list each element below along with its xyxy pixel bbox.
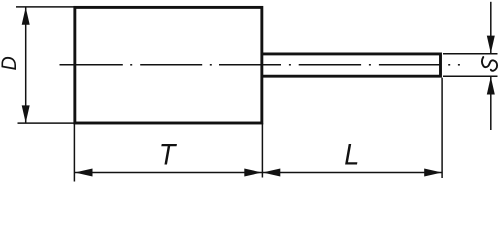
L arrow left — [263, 169, 281, 177]
D dimension line — [25, 7, 27, 122]
centerline dash 1 — [60, 64, 123, 66]
shank outline (diameter S) — [262, 52, 441, 77]
svg-text:D: D — [0, 56, 21, 70]
T extension line left (below body) — [73, 123, 75, 182]
centerline dot 5 — [448, 64, 450, 66]
T arrow left — [75, 169, 93, 177]
centerline dot 2 — [210, 64, 212, 66]
L extension line right (below shank end) — [441, 78, 443, 178]
L arrow right — [424, 169, 442, 177]
T/L shared extension line middle — [261, 123, 263, 178]
S dimension line upper — [490, 2, 492, 54]
label S (rotated open drafting S drawn as path) — [482, 57, 497, 71]
S dimension line lower — [490, 77, 492, 130]
D extension line bottom — [18, 122, 77, 124]
D arrow up — [22, 7, 30, 25]
S arrow up — [487, 77, 495, 95]
centerline dash 4 — [299, 64, 361, 66]
centerline dash 3 — [219, 64, 281, 66]
centerline dot 6 — [458, 64, 460, 66]
S extension line bottom — [443, 75, 498, 77]
centerline dash 2 — [140, 64, 202, 66]
svg-text:L: L — [344, 138, 359, 172]
centerline dot 1 — [130, 64, 132, 66]
T dimension line — [74, 172, 262, 174]
L dimension line — [262, 172, 442, 174]
centerline dot 4 — [369, 64, 371, 66]
wheel body rectangle (D x T) — [75, 7, 262, 123]
S arrow down — [487, 36, 495, 54]
D extension line top — [16, 6, 76, 8]
T arrow right — [244, 169, 262, 177]
S extension line top — [443, 53, 498, 55]
D arrow down — [22, 105, 30, 123]
centerline dot 3 — [289, 64, 291, 66]
svg-text:T: T — [159, 138, 178, 172]
centerline dash 5 — [379, 64, 441, 66]
